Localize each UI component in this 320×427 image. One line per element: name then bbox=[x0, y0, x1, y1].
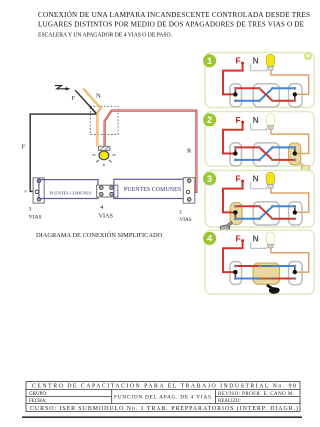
title text bbox=[38, 9, 310, 39]
4-way crossover wires bbox=[259, 147, 272, 160]
svg-text:3: 3 bbox=[207, 174, 212, 184]
label N bbox=[96, 93, 101, 100]
S2 terminals bbox=[258, 265, 274, 280]
lamp bulb bbox=[92, 151, 115, 166]
S1 contact position bbox=[234, 272, 236, 278]
svg-text:VIAS: VIAS bbox=[29, 215, 42, 221]
wire blue S2 to S3 top bbox=[273, 146, 295, 148]
label F (phase) bbox=[235, 233, 244, 243]
wire N gray bbox=[251, 64, 267, 70]
svg-text:CURSO: ISER SUBMODULO No. 1: CURSO: ISER SUBMODULO No. 1 TRAB. PREPPA… bbox=[30, 405, 298, 412]
svg-text:N: N bbox=[253, 115, 259, 125]
lamp holder (hatched) bbox=[99, 146, 110, 150]
svg-text:VIAS: VIAS bbox=[180, 217, 192, 223]
junction box (dashed) bbox=[90, 106, 118, 134]
step number 2 badge bbox=[203, 113, 216, 126]
S2 terminals bbox=[258, 146, 274, 161]
S2 terminals bbox=[258, 205, 274, 220]
svg-text:PUENTES COMUNES: PUENTES COMUNES bbox=[50, 191, 92, 196]
svg-text:3: 3 bbox=[179, 210, 182, 216]
4-way crossover wires bbox=[259, 88, 272, 101]
wire lamp to S3 common (orange) bbox=[271, 70, 309, 94]
wire F red feed bbox=[223, 63, 243, 94]
switch box S2 (4 vias) bbox=[97, 185, 118, 197]
wire red S2 to S3 bottom bbox=[273, 218, 295, 220]
label F (phase) bbox=[235, 56, 244, 66]
4-way straight-through wires bbox=[259, 266, 272, 279]
faint corner icon bbox=[304, 52, 312, 60]
switch box S1 (3 vias left) bbox=[33, 178, 44, 203]
svg-text:REVISO: PROFR. E. CANO M.: REVISO: PROFR. E. CANO M. bbox=[218, 392, 294, 397]
svg-text:FUNCION DEL APAG. DE 4 VIAS: FUNCION DEL APAG. DE 4 VIAS bbox=[114, 395, 211, 401]
label N (neutral) bbox=[253, 233, 259, 243]
highlighted 3-way switch (pressed) bbox=[289, 143, 301, 165]
switch S1 (3-way left) body bbox=[230, 84, 242, 107]
svg-text:4: 4 bbox=[100, 204, 103, 211]
svg-text:LUGARES DISTINTOS POR MEDIO DE: LUGARES DISTINTOS POR MEDIO DE DOS APAGA… bbox=[38, 21, 305, 29]
label 4 VIAS bbox=[99, 204, 114, 220]
S1 terminals bbox=[233, 205, 237, 220]
jumper PUENTES COMUNES (right) bbox=[114, 179, 189, 198]
svg-text:PUENTES COMUNES: PUENTES COMUNES bbox=[124, 187, 181, 193]
label N (neutral) bbox=[253, 56, 259, 66]
wire blue S1 bottom to S2 bbox=[235, 278, 259, 280]
S1 terminals bbox=[233, 146, 237, 161]
table texts bbox=[29, 384, 298, 412]
S3 terminals bbox=[293, 87, 297, 102]
label R bbox=[187, 148, 192, 155]
title block table bbox=[26, 382, 300, 412]
wire red S1 top to S2 bbox=[235, 205, 259, 207]
label F top bbox=[72, 95, 76, 102]
svg-text:FECHA:: FECHA: bbox=[29, 399, 47, 404]
wire F red feed bbox=[223, 241, 243, 272]
S1 contact position bbox=[234, 88, 236, 94]
wire F red feed bbox=[223, 122, 243, 153]
svg-text:F: F bbox=[235, 115, 240, 125]
svg-text:F: F bbox=[22, 144, 26, 151]
S2 terminals bbox=[258, 87, 274, 102]
label 3 VIAS left bbox=[29, 207, 42, 221]
S1 terminals bbox=[233, 265, 237, 280]
svg-text:F: F bbox=[72, 95, 76, 102]
wire red S1 top to S2 bbox=[235, 87, 259, 89]
hand cursor (black) pressing S2 bbox=[267, 284, 280, 293]
label F left bbox=[22, 144, 26, 151]
svg-text:VIAS: VIAS bbox=[99, 213, 114, 220]
svg-text:N: N bbox=[253, 233, 259, 243]
lamp (OFF) bbox=[266, 232, 274, 248]
switch S1 (3-way left) body bbox=[230, 143, 242, 166]
switch box S3 (3 vias right) bbox=[183, 178, 195, 204]
S1 terminals bbox=[233, 87, 237, 102]
wire blue S1 bottom to S2 bbox=[235, 159, 259, 161]
step number 4 badge bbox=[203, 232, 216, 245]
svg-text:3: 3 bbox=[29, 207, 32, 213]
svg-text:1: 1 bbox=[207, 56, 212, 66]
svg-text:ESCALERA Y UN APAGADOR DE 4 VI: ESCALERA Y UN APAGADOR DE 4 VIAS O DE PA… bbox=[38, 31, 172, 38]
S3 contact position bbox=[294, 94, 296, 100]
lamp (ON) bbox=[266, 172, 274, 188]
lamp (OFF) bbox=[266, 113, 274, 129]
switch S2 (4-way middle) body bbox=[253, 84, 279, 107]
caption DIAGRAMA bbox=[36, 231, 163, 239]
svg-text:R: R bbox=[187, 148, 192, 155]
wire lamp to S3 common (orange) bbox=[271, 188, 309, 212]
S3 screws bbox=[186, 179, 191, 201]
switch S3 (3-way right) body bbox=[289, 202, 302, 225]
wire red S2 to S3 bottom bbox=[273, 159, 295, 161]
svg-text:4: 4 bbox=[207, 234, 213, 244]
svg-text:F: F bbox=[235, 174, 240, 184]
svg-text:REALIZO:: REALIZO: bbox=[218, 399, 241, 404]
svg-text:2: 2 bbox=[207, 115, 212, 125]
lamp (ON) bbox=[266, 54, 274, 70]
switch S1 (3-way left) body bbox=[230, 262, 242, 285]
switch S3 (3-way right) body bbox=[289, 262, 302, 285]
left feed terminal bbox=[25, 190, 27, 192]
4-way crossover wires bbox=[259, 206, 272, 219]
wire N gray bbox=[251, 182, 267, 188]
svg-text:N: N bbox=[253, 174, 259, 184]
wire blue S2 to S3 top bbox=[273, 265, 295, 267]
wire N gray bbox=[251, 242, 267, 248]
svg-text:CONEXIÓN DE UNA LAMPARA INCAND: CONEXIÓN DE UNA LAMPARA INCANDESCENTE CO… bbox=[38, 9, 310, 19]
wire blue S1 bottom to S2 bbox=[235, 218, 259, 220]
label N (neutral) bbox=[253, 115, 259, 125]
panel 3 frame bbox=[205, 171, 314, 228]
wire F red feed bbox=[223, 181, 243, 212]
svg-text:F: F bbox=[235, 56, 240, 66]
panel 4 frame bbox=[205, 230, 314, 294]
S1 screws bbox=[35, 179, 40, 201]
svg-text:GRUPO:: GRUPO: bbox=[29, 392, 47, 397]
wire R red (return) bbox=[105, 111, 197, 192]
label N (neutral) bbox=[253, 174, 259, 184]
switch S2 (4-way middle) body bbox=[253, 143, 279, 166]
wire lamp to S3 common (orange) bbox=[271, 129, 309, 153]
jumper PUENTES COMUNES (left) bbox=[39, 180, 98, 199]
bottom rule bbox=[22, 416, 302, 418]
hand cursor (gray) pressing S1 bbox=[220, 222, 232, 232]
wire N gray bbox=[251, 123, 267, 129]
svg-text:N: N bbox=[96, 93, 101, 100]
hand cursor (pale) pressing S3 bbox=[299, 162, 310, 171]
switch S3 (3-way right) body bbox=[289, 84, 302, 107]
service entrance arrow bbox=[55, 86, 71, 91]
S1 contact position bbox=[234, 212, 236, 218]
wire red S2 to S3 bottom bbox=[273, 100, 295, 102]
S3 terminals bbox=[293, 205, 297, 220]
wire lamp to S3 common (orange) bbox=[271, 248, 309, 272]
step number 1 badge bbox=[203, 54, 216, 67]
wire blue S2 to S3 top bbox=[273, 87, 295, 89]
wire red S2 to S3 bottom bbox=[273, 278, 295, 280]
wire red S1 top to S2 bbox=[235, 265, 259, 267]
label 3 VIAS right bbox=[179, 210, 192, 224]
S3 contact position bbox=[294, 266, 296, 272]
S3 contact position bbox=[294, 147, 296, 153]
wire blue S1 bottom to S2 bbox=[235, 100, 259, 102]
label F (phase) bbox=[235, 115, 244, 125]
wire red S1 top to S2 bbox=[235, 146, 259, 148]
wire blue S2 to S3 top bbox=[273, 205, 295, 207]
svg-text:F: F bbox=[235, 233, 240, 243]
svg-text:N: N bbox=[253, 56, 259, 66]
wire N orange (neutral) bbox=[83, 89, 101, 147]
highlighted 3-way switch (pressed) bbox=[230, 203, 242, 225]
highlighted 4-way switch (pressed) bbox=[253, 263, 279, 284]
label F (phase) bbox=[235, 174, 244, 184]
step number 3 badge bbox=[203, 172, 216, 185]
panel 2 frame bbox=[205, 112, 314, 167]
wire F black (phase) bbox=[30, 90, 97, 191]
S3 terminals bbox=[293, 265, 297, 280]
S3 terminals bbox=[293, 146, 297, 161]
S1 contact position bbox=[234, 147, 236, 153]
S3 contact position bbox=[294, 206, 296, 212]
panel 1 frame bbox=[205, 53, 314, 108]
switch S2 (4-way middle) body bbox=[253, 202, 279, 225]
svg-text:DIAGRAMA DE CONEXIÓN SIMPLIFIC: DIAGRAMA DE CONEXIÓN SIMPLIFICADO bbox=[36, 231, 163, 239]
S2 screws bbox=[100, 186, 114, 196]
